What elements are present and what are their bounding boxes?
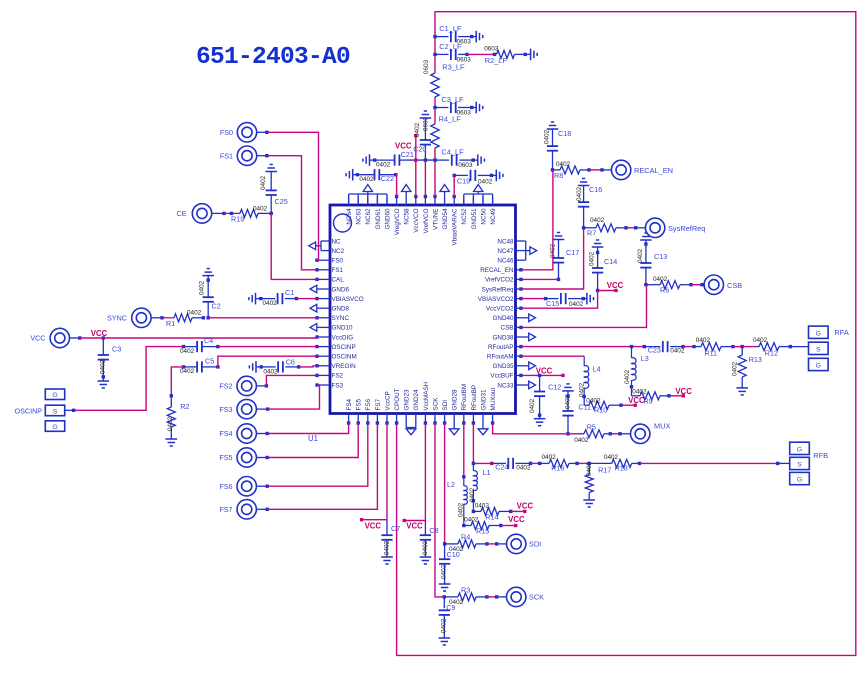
- svg-text:0402: 0402: [478, 178, 493, 185]
- svg-text:FS6: FS6: [219, 482, 232, 491]
- resistor R2: [166, 367, 190, 446]
- svg-text:R5: R5: [587, 422, 596, 431]
- ground arrow GND35: [529, 362, 536, 370]
- svg-text:G: G: [816, 363, 821, 370]
- wire VREGIN: [299, 366, 317, 367]
- capacitor C25: [260, 165, 288, 216]
- resistor R7: [584, 217, 646, 238]
- svg-text:VCC: VCC: [30, 334, 45, 343]
- svg-text:NC: NC: [332, 238, 342, 245]
- connector FS6: [219, 477, 269, 496]
- svg-text:FS2: FS2: [219, 382, 232, 391]
- svg-text:R18: R18: [615, 464, 628, 473]
- svg-text:C1: C1: [285, 288, 294, 297]
- svg-text:0402: 0402: [516, 465, 531, 472]
- svg-text:L1: L1: [483, 468, 491, 477]
- svg-text:0402: 0402: [100, 359, 107, 374]
- svg-text:C5: C5: [205, 356, 214, 365]
- ground arrow GND6: [310, 285, 317, 293]
- svg-text:R3: R3: [461, 585, 470, 594]
- wire SysRefReq: [521, 228, 584, 289]
- ground arrow NC48 NC47 NC46 bracket: [526, 241, 537, 260]
- svg-text:L4: L4: [593, 365, 601, 374]
- capacitor C17: [550, 233, 580, 282]
- connector FS5: [219, 448, 269, 467]
- resistor R6: [646, 276, 704, 295]
- svg-text:RFoutAM: RFoutAM: [487, 354, 514, 361]
- svg-text:VbiasVARAC: VbiasVARAC: [452, 208, 459, 245]
- svg-text:L3: L3: [641, 354, 649, 363]
- svg-text:GND8: GND8: [332, 306, 350, 313]
- svg-text:VCC: VCC: [517, 502, 534, 511]
- connector MUX: [631, 422, 671, 444]
- wire FS1: [267, 156, 317, 270]
- resistor R4: [443, 532, 507, 553]
- svg-text:GND38: GND38: [493, 334, 514, 341]
- svg-text:NC62: NC62: [365, 208, 372, 225]
- svg-text:GND35: GND35: [493, 363, 514, 370]
- svg-text:0402: 0402: [263, 300, 278, 307]
- resistor R16: [531, 454, 579, 473]
- svg-text:0402: 0402: [167, 416, 174, 431]
- wire FS6: [267, 423, 368, 486]
- svg-text:NC2: NC2: [332, 248, 345, 255]
- svg-text:C4: C4: [204, 336, 213, 345]
- wire FS7: [267, 423, 377, 509]
- svg-text:C11: C11: [578, 402, 591, 411]
- svg-text:FS3: FS3: [332, 382, 344, 389]
- resistor R11: [683, 337, 735, 358]
- svg-text:0402: 0402: [260, 175, 267, 190]
- svg-text:C4_LF: C4_LF: [442, 148, 465, 157]
- svg-text:VCC: VCC: [536, 366, 553, 375]
- svg-text:0402: 0402: [180, 348, 195, 355]
- svg-text:0402: 0402: [624, 369, 631, 384]
- resistor R8: [553, 161, 612, 180]
- svg-text:C25: C25: [275, 197, 288, 206]
- resistor R15: [464, 515, 525, 536]
- svg-text:0402: 0402: [576, 186, 583, 201]
- svg-text:0402: 0402: [732, 361, 739, 376]
- connector VCC: [30, 328, 81, 347]
- wire CAL: [271, 213, 317, 279]
- svg-text:C7: C7: [391, 524, 400, 533]
- svg-text:C6: C6: [286, 358, 295, 367]
- svg-text:NC49: NC49: [490, 208, 497, 225]
- capacitor C23: [644, 341, 685, 355]
- capacitor C8: [420, 521, 439, 565]
- ground arrow GND54: [440, 185, 449, 197]
- svg-text:NC48: NC48: [497, 238, 514, 245]
- svg-text:C21: C21: [401, 150, 414, 159]
- svg-text:R7: R7: [587, 229, 596, 238]
- svg-text:VregVCO: VregVCO: [394, 208, 401, 235]
- wire FS2: [266, 375, 317, 386]
- resistor R17: [577, 461, 611, 507]
- svg-text:0402: 0402: [376, 162, 391, 169]
- capacitor C1: [249, 288, 298, 307]
- capacitor C15: [521, 293, 594, 308]
- connector FS1: [220, 146, 269, 165]
- wire VTUNE bus: [434, 60, 436, 197]
- svg-text:VccVCO2: VccVCO2: [486, 306, 514, 313]
- wire VrefVCO: [424, 160, 426, 196]
- svg-text:FS2: FS2: [332, 373, 344, 380]
- svg-text:R15: R15: [476, 527, 489, 536]
- svg-text:0402: 0402: [253, 205, 268, 212]
- svg-text:CE: CE: [177, 209, 187, 218]
- capacitor C3_LF: [433, 95, 483, 117]
- capacitor C18: [544, 122, 572, 172]
- inductor L4: [579, 356, 601, 398]
- svg-text:GND60: GND60: [384, 208, 391, 229]
- wire VBIASVCO: [297, 298, 318, 300]
- svg-text:C14: C14: [604, 257, 617, 266]
- connector FS7: [219, 500, 269, 519]
- resistor R12: [742, 337, 808, 358]
- svg-text:0402: 0402: [464, 517, 479, 524]
- svg-text:0402: 0402: [383, 540, 390, 555]
- svg-text:C22: C22: [381, 174, 394, 183]
- resistor R3: [443, 585, 507, 606]
- capacitor C7: [381, 520, 400, 564]
- wire SDI: [444, 423, 446, 544]
- wire CSB: [521, 285, 647, 328]
- connector SysRefReq: [645, 218, 705, 237]
- svg-text:FS4: FS4: [346, 398, 353, 410]
- svg-text:NC63: NC63: [356, 208, 363, 225]
- capacitor C24: [492, 458, 533, 472]
- resistor R9: [632, 387, 693, 406]
- wire MUXout: [493, 423, 568, 434]
- resistor R4_LF: [423, 115, 462, 149]
- ground arrow GND10: [310, 324, 317, 332]
- inductor L2: [447, 475, 467, 527]
- svg-text:S: S: [816, 346, 821, 353]
- capacitor C3: [98, 338, 122, 388]
- svg-text:0402: 0402: [550, 243, 557, 258]
- title text 651-2403-A0: [196, 44, 350, 71]
- svg-text:0402: 0402: [579, 382, 586, 397]
- svg-text:VccCP: VccCP: [384, 391, 391, 410]
- svg-text:R4_LF: R4_LF: [439, 115, 462, 124]
- capacitor C2_LF: [433, 42, 471, 64]
- svg-text:651-2403-A0: 651-2403-A0: [196, 44, 350, 71]
- wire VccDIG: [80, 337, 317, 338]
- capacitor C2: [199, 269, 221, 320]
- svg-text:C13: C13: [654, 252, 667, 261]
- inductor L1: [469, 463, 491, 513]
- svg-text:GND51: GND51: [471, 208, 478, 229]
- capacitor C1_LF: [433, 24, 483, 46]
- svg-text:GND40: GND40: [493, 315, 514, 322]
- svg-text:GND28: GND28: [452, 389, 459, 410]
- svg-text:0402: 0402: [589, 251, 596, 266]
- connector SCK: [507, 587, 545, 606]
- ground arrow NC58: [402, 185, 411, 197]
- svg-text:0603: 0603: [484, 45, 499, 52]
- svg-text:0402: 0402: [569, 301, 584, 308]
- svg-text:NC58: NC58: [404, 208, 411, 225]
- resistor R2_LF: [467, 45, 537, 65]
- svg-text:FS0: FS0: [332, 258, 344, 265]
- ground arrow top NC64-GND60 group: [349, 185, 387, 206]
- svg-text:CPOUT: CPOUT: [394, 388, 401, 410]
- wire VrefVCO2: [521, 278, 559, 280]
- svg-text:FS6: FS6: [365, 398, 372, 410]
- svg-text:0402: 0402: [544, 129, 551, 144]
- svg-text:R16: R16: [551, 464, 564, 473]
- IC U1: [308, 195, 529, 443]
- svg-text:R14: R14: [485, 513, 498, 522]
- svg-text:FS4: FS4: [219, 429, 232, 438]
- svg-text:R17: R17: [598, 465, 611, 474]
- svg-text:C3_LF: C3_LF: [441, 95, 464, 104]
- capacitor C5: [180, 356, 220, 375]
- svg-text:VCC: VCC: [365, 522, 382, 531]
- svg-text:VCC: VCC: [675, 387, 692, 396]
- capacitor C4_LF: [433, 148, 484, 170]
- svg-text:VccBUF: VccBUF: [490, 373, 513, 380]
- ground arrow GND28: [449, 423, 459, 435]
- svg-text:G: G: [52, 392, 57, 399]
- VCC net label VccMASH: [403, 519, 426, 531]
- wire VbiasVARAC: [453, 175, 455, 196]
- VCC net label VccBUF: [521, 366, 565, 377]
- resistor R18: [589, 454, 641, 473]
- wire OSCINP: [74, 347, 317, 411]
- svg-text:FS5: FS5: [356, 398, 363, 410]
- capacitor C13: [637, 233, 667, 286]
- ground arrow GND31: [478, 423, 488, 435]
- svg-text:FS3: FS3: [219, 405, 232, 414]
- svg-text:NC50: NC50: [480, 208, 487, 225]
- svg-text:VREGIN: VREGIN: [332, 363, 357, 370]
- svg-text:0402: 0402: [440, 564, 447, 579]
- wire VccVCO2: [521, 291, 598, 309]
- VCC net label VccVCO2: [598, 281, 624, 292]
- svg-text:RECAL_EN: RECAL_EN: [480, 267, 514, 274]
- svg-text:R12: R12: [765, 349, 778, 358]
- svg-text:0402: 0402: [469, 487, 476, 502]
- svg-text:GND31: GND31: [480, 389, 487, 410]
- wire RFoutBP to C24: [472, 462, 494, 465]
- svg-text:0603: 0603: [458, 162, 473, 169]
- wire RFoutAM: [521, 355, 584, 357]
- svg-text:C2: C2: [212, 302, 221, 311]
- svg-text:0402: 0402: [359, 176, 374, 183]
- svg-text:RFoutBP: RFoutBP: [471, 385, 478, 411]
- wire RFoutAP: [521, 345, 646, 348]
- svg-text:R2: R2: [180, 402, 189, 411]
- svg-text:0402: 0402: [590, 217, 605, 224]
- svg-text:R6: R6: [660, 286, 669, 295]
- ground arrow NC NC2 bracket: [309, 241, 321, 251]
- wire CPOUT loop to loop-filter bus: [397, 12, 856, 656]
- capacitor C9: [439, 597, 456, 645]
- svg-text:0402: 0402: [187, 310, 202, 317]
- VCC net label: [91, 329, 108, 340]
- capacitor C20: [413, 111, 431, 160]
- svg-text:R3_LF: R3_LF: [442, 63, 465, 72]
- svg-text:R19: R19: [231, 215, 244, 224]
- resistor R10: [584, 396, 645, 414]
- svg-text:VTUNE: VTUNE: [432, 209, 439, 230]
- svg-text:0402: 0402: [414, 122, 421, 137]
- wire RFoutBP: [472, 423, 474, 463]
- svg-text:MUX: MUX: [654, 422, 670, 431]
- svg-text:L2: L2: [447, 480, 455, 489]
- svg-text:RFoutAP: RFoutAP: [488, 344, 514, 351]
- svg-text:C10: C10: [447, 550, 460, 559]
- svg-text:VCC: VCC: [406, 522, 423, 531]
- connector FS0: [220, 123, 269, 142]
- capacitor C21: [363, 150, 414, 169]
- svg-text:0402: 0402: [604, 454, 619, 461]
- connector OSCINP: [15, 389, 76, 431]
- connector CSB: [704, 275, 742, 294]
- svg-text:0402: 0402: [422, 540, 429, 555]
- svg-text:RFA: RFA: [834, 328, 848, 337]
- svg-text:S: S: [53, 408, 58, 415]
- ground arrow GND38: [529, 333, 536, 341]
- svg-text:VccVCO: VccVCO: [413, 208, 420, 232]
- resistor R19: [224, 205, 271, 223]
- svg-text:GND24: GND24: [413, 389, 420, 410]
- wire VccVCO VCC: [395, 134, 417, 197]
- connector SDI: [507, 534, 542, 553]
- svg-text:OSCINM: OSCINM: [332, 354, 357, 361]
- svg-text:0603: 0603: [423, 59, 430, 74]
- svg-text:SCK: SCK: [432, 397, 439, 411]
- svg-text:FS7: FS7: [219, 505, 232, 514]
- svg-text:C16: C16: [589, 185, 602, 194]
- capacitor C14: [589, 240, 618, 292]
- svg-text:SDI: SDI: [442, 400, 449, 411]
- svg-text:0402: 0402: [565, 394, 572, 409]
- connector FS3: [219, 399, 269, 418]
- svg-text:C9: C9: [446, 603, 455, 612]
- capacitor C16: [576, 179, 602, 230]
- svg-text:NC33: NC33: [497, 382, 514, 389]
- svg-text:SYNC: SYNC: [332, 315, 350, 322]
- wire SCK: [435, 423, 444, 597]
- svg-text:SYNC: SYNC: [107, 314, 127, 323]
- wire RFoutBM: [463, 423, 465, 477]
- svg-text:R10: R10: [594, 406, 607, 415]
- wire VccCP: [386, 423, 388, 520]
- svg-text:0402: 0402: [574, 437, 589, 444]
- svg-text:C1_LF: C1_LF: [439, 24, 462, 33]
- wire VregVCO: [395, 175, 398, 197]
- resistor R3_LF: [423, 59, 465, 97]
- svg-text:R11: R11: [704, 349, 717, 358]
- ground arrow GND40: [529, 314, 536, 322]
- connector SYNC: [107, 308, 164, 327]
- capacitor C12: [529, 375, 561, 425]
- connector FS4: [219, 424, 269, 443]
- svg-text:R8: R8: [554, 171, 563, 180]
- svg-text:FS1: FS1: [332, 267, 344, 274]
- resistor R1: [162, 310, 205, 328]
- capacitor C19: [453, 170, 503, 186]
- svg-text:0402: 0402: [199, 280, 206, 295]
- svg-text:G: G: [52, 424, 57, 431]
- svg-text:0402: 0402: [529, 398, 536, 413]
- svg-text:0402: 0402: [440, 618, 447, 633]
- svg-text:0402: 0402: [632, 388, 647, 395]
- resistor R13: [732, 345, 762, 395]
- svg-text:VccDIG: VccDIG: [332, 334, 354, 341]
- svg-text:CSB: CSB: [727, 281, 742, 290]
- svg-text:C23: C23: [648, 346, 661, 355]
- svg-text:OSCINP: OSCINP: [15, 407, 43, 416]
- svg-text:C8: C8: [429, 526, 438, 535]
- resistor R14: [473, 502, 533, 522]
- svg-text:FS7: FS7: [375, 398, 382, 410]
- svg-text:FS0: FS0: [220, 128, 233, 137]
- svg-text:0402: 0402: [670, 348, 685, 355]
- capacitor C10: [439, 544, 460, 591]
- svg-text:C15: C15: [546, 299, 559, 308]
- svg-text:VCC: VCC: [508, 515, 525, 524]
- connector RFB: [790, 442, 828, 484]
- svg-text:GND54: GND54: [442, 208, 449, 229]
- svg-text:SDI: SDI: [529, 540, 541, 549]
- wire FS4: [267, 423, 348, 434]
- svg-text:0402: 0402: [542, 454, 557, 461]
- svg-text:FS1: FS1: [220, 151, 233, 160]
- svg-text:VBIASVCO2: VBIASVCO2: [478, 296, 514, 303]
- svg-text:RFoutBM: RFoutBM: [461, 384, 468, 411]
- svg-text:C17: C17: [566, 248, 579, 257]
- svg-text:SysRefReq: SysRefReq: [668, 224, 705, 233]
- svg-text:R9: R9: [644, 396, 653, 405]
- node VCO bias row: [405, 158, 435, 161]
- svg-text:C3: C3: [112, 345, 121, 354]
- svg-text:C19: C19: [457, 176, 470, 185]
- capacitor C6: [249, 358, 300, 376]
- wire FS5: [267, 423, 358, 458]
- svg-text:0402: 0402: [475, 503, 490, 510]
- wire RFB: [640, 462, 790, 465]
- svg-text:NC52: NC52: [461, 208, 468, 225]
- svg-text:R2_LF: R2_LF: [485, 56, 508, 65]
- capacitor C4: [180, 336, 220, 355]
- svg-text:0402: 0402: [637, 248, 644, 263]
- svg-text:GND61: GND61: [375, 208, 382, 229]
- svg-text:0402: 0402: [556, 161, 571, 168]
- svg-text:S: S: [797, 462, 802, 469]
- connector RECAL_EN: [611, 160, 673, 179]
- svg-text:C18: C18: [558, 129, 571, 138]
- wire SYNC: [208, 317, 317, 319]
- svg-text:VBIASVCO: VBIASVCO: [332, 296, 364, 303]
- svg-text:VCC: VCC: [628, 396, 645, 405]
- svg-text:OSCINP: OSCINP: [332, 344, 356, 351]
- svg-text:0402: 0402: [263, 368, 278, 375]
- svg-text:C20: C20: [413, 145, 426, 154]
- svg-text:FS5: FS5: [219, 453, 232, 462]
- wire OSCINM: [218, 356, 317, 367]
- svg-text:VccMASH: VccMASH: [423, 381, 430, 410]
- svg-text:NC46: NC46: [497, 258, 514, 265]
- svg-text:G: G: [797, 446, 802, 453]
- svg-text:VrefVCO2: VrefVCO2: [485, 277, 514, 284]
- capacitor C11: [562, 384, 591, 436]
- svg-text:RFB: RFB: [813, 451, 828, 460]
- wire FS0: [267, 132, 319, 260]
